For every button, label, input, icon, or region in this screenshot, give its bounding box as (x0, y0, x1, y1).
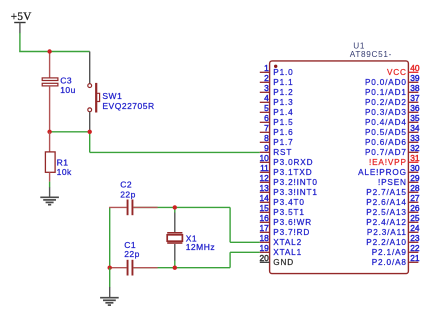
svg-text:P0.3/AD3: P0.3/AD3 (365, 108, 407, 117)
svg-text:37: 37 (410, 93, 420, 103)
svg-text:21: 21 (410, 253, 420, 263)
svg-text:EVQ22705R: EVQ22705R (102, 101, 154, 111)
U1 pin 23 P2.2/A10 (366, 233, 420, 247)
svg-text:XTAL1: XTAL1 (273, 248, 302, 257)
junction node top rail at C3 (47, 49, 51, 53)
wire +5V to top rail (19, 33, 90, 52)
svg-text:VCC: VCC (387, 68, 407, 77)
svg-text:35: 35 (410, 113, 420, 123)
U1 pin 5 P1.4 (260, 103, 294, 117)
U1 pin 34 P0.5/AD5 (365, 123, 420, 137)
U1 pin 10 P3.0RXD (259, 153, 313, 167)
U1 pin 28 P2.7/A15 (366, 183, 420, 197)
svg-text:P3.3!INT1: P3.3!INT1 (273, 188, 318, 197)
svg-text:P1.7: P1.7 (273, 138, 293, 147)
svg-text:P0.5/AD5: P0.5/AD5 (365, 128, 407, 137)
svg-text:P0.4/AD4: P0.4/AD4 (365, 118, 407, 127)
svg-text:P2.3/A11: P2.3/A11 (367, 228, 407, 237)
switch SW1 top lead (89, 52, 91, 84)
X1 value 12MHz (186, 242, 215, 252)
U1 pin 1 P1.0 (260, 63, 294, 77)
U1 pin 21 P2.0/A8 (372, 253, 420, 267)
svg-text:18: 18 (259, 233, 269, 243)
svg-text:8: 8 (264, 133, 269, 143)
svg-text:XTAL2: XTAL2 (273, 238, 302, 247)
svg-text:29: 29 (410, 173, 420, 183)
U1 ref label (353, 41, 365, 50)
svg-text:15: 15 (259, 203, 269, 213)
svg-text:P2.7/A15: P2.7/A15 (366, 188, 407, 197)
svg-text:P3.5T1: P3.5T1 (273, 208, 305, 217)
svg-text:2: 2 (264, 73, 269, 83)
wire R1 to ground (49, 182, 51, 188)
svg-text:20: 20 (259, 253, 269, 263)
U1 pin 16 P3.6!WR (259, 213, 312, 227)
U1 pin 40 VCC (387, 63, 420, 77)
svg-text:P1.6: P1.6 (273, 128, 293, 137)
svg-text:4: 4 (264, 93, 269, 103)
svg-text:P2.4/A12: P2.4/A12 (366, 218, 407, 227)
capacitor C1 (109, 260, 158, 276)
svg-text:13: 13 (259, 183, 269, 193)
resistor R1 (45, 132, 55, 182)
capacitor C2 (109, 200, 133, 216)
svg-text:P1.3: P1.3 (273, 98, 293, 107)
junction node XTAL2 rail at X1 (173, 205, 177, 209)
svg-text:39: 39 (410, 73, 420, 83)
svg-text:5: 5 (264, 103, 269, 113)
svg-text:16: 16 (259, 213, 269, 223)
C2 ref label (120, 180, 132, 190)
svg-text:22: 22 (410, 243, 420, 253)
svg-text:40: 40 (410, 63, 420, 73)
svg-text:P1.5: P1.5 (273, 118, 293, 127)
capacitor C3 (42, 52, 58, 132)
wire bottom rail C3/R1 to SW1 (50, 131, 90, 133)
U1 pin 20 GND (259, 253, 294, 267)
U1 pin 24 P2.3/A11 (367, 223, 420, 237)
crystal X1 (167, 233, 182, 243)
U1 pin 17 P3.7!RD (259, 223, 310, 237)
U1 pin 33 P0.6/AD6 (365, 133, 420, 147)
SW1 value EVQ22705R (102, 101, 154, 111)
svg-text:P0.1/AD1: P0.1/AD1 (365, 88, 407, 97)
wire C2 to XTAL2 (133, 207, 259, 242)
svg-text:P0.2/AD2: P0.2/AD2 (365, 98, 407, 107)
svg-text:10u: 10u (60, 85, 76, 95)
svg-text:ALE!PROG: ALE!PROG (358, 168, 407, 177)
svg-text:R1: R1 (57, 157, 69, 167)
svg-text:P3.7!RD: P3.7!RD (273, 228, 310, 237)
U1 pin 31 !EA!VPP (369, 153, 420, 167)
U1 pin 25 P2.4/A12 (366, 213, 420, 227)
crystal X1 top lead (174, 207, 176, 232)
svg-text:12: 12 (259, 173, 269, 183)
wire SW1 to RST (90, 132, 260, 153)
U1 pin 2 P1.1 (260, 73, 294, 87)
svg-text:26: 26 (410, 203, 420, 213)
switch SW1 (88, 83, 100, 113)
svg-text:14: 14 (259, 193, 269, 203)
switch SW1 bottom lead (89, 112, 91, 132)
svg-text:P3.4T0: P3.4T0 (273, 198, 305, 207)
svg-text:P0.0/AD0: P0.0/AD0 (365, 78, 407, 87)
svg-text:!PSEN: !PSEN (378, 178, 407, 187)
svg-text:P2.2/A10: P2.2/A10 (366, 238, 407, 247)
svg-text:P2.0/A8: P2.0/A8 (372, 258, 407, 267)
op-amp U1 body (AT89C51 MCU) (270, 61, 409, 274)
U1 pin 8 P1.7 (260, 133, 294, 147)
U1 pin 11 P3.1TXD (260, 163, 313, 177)
svg-text:P2.5/A13: P2.5/A13 (366, 208, 407, 217)
svg-text:GND: GND (273, 258, 294, 267)
junction node XTAL1 rail at C1 (108, 266, 112, 270)
svg-text:P3.0RXD: P3.0RXD (273, 158, 313, 167)
svg-text:32: 32 (410, 143, 420, 153)
svg-text:7: 7 (264, 123, 269, 133)
C1 ref label (124, 240, 136, 250)
svg-text:6: 6 (264, 113, 269, 123)
U1 pin 13 P3.3!INT1 (259, 183, 317, 197)
U1 pin 39 P0.0/AD0 (365, 73, 420, 87)
U1 pin 26 P2.5/A13 (366, 203, 420, 217)
svg-text:24: 24 (410, 223, 420, 233)
svg-text:C3: C3 (60, 75, 72, 85)
crystal X1 bottom lead (174, 244, 176, 268)
U1 pin 35 P0.4/AD4 (365, 113, 420, 127)
U1 pin 15 P3.5T1 (259, 203, 304, 217)
svg-text:P0.6/AD6: P0.6/AD6 (365, 138, 407, 147)
U1 pin 14 P3.4T0 (259, 193, 304, 207)
R1 ref label (57, 157, 69, 167)
svg-text:34: 34 (410, 123, 420, 133)
svg-text:P1.4: P1.4 (273, 108, 293, 117)
svg-text:9: 9 (264, 143, 269, 153)
SW1 ref label (102, 91, 122, 101)
svg-text:31: 31 (410, 153, 420, 163)
svg-text:19: 19 (259, 243, 269, 253)
wire left vertical C2 to C1 (109, 207, 111, 267)
svg-text:1: 1 (264, 63, 269, 73)
C2 value 22p (120, 189, 136, 199)
svg-text:P1.2: P1.2 (273, 88, 293, 97)
svg-text:36: 36 (410, 103, 420, 113)
ground under C1 (100, 287, 119, 305)
U1 pin 12 P3.2!INT0 (259, 173, 317, 187)
svg-text:22p: 22p (124, 249, 140, 259)
U1 pin 30 ALE!PROG (358, 163, 420, 177)
U1 pin 32 P0.7/AD7 (365, 143, 420, 157)
svg-text:P3.2!INT0: P3.2!INT0 (273, 178, 318, 187)
C3 value 10u (60, 85, 76, 95)
svg-text:22p: 22p (120, 189, 136, 199)
svg-text:SW1: SW1 (102, 91, 122, 101)
svg-text:10k: 10k (57, 167, 72, 177)
R1 value 10k (57, 167, 72, 177)
U1 pin 27 P2.6/A14 (366, 193, 420, 207)
svg-text:P3.1TXD: P3.1TXD (273, 168, 312, 177)
U1 pin 36 P0.3/AD3 (365, 103, 420, 117)
wire C1 to XTAL1 (133, 252, 259, 267)
X1 ref label (186, 234, 197, 244)
U1 pin 3 P1.2 (260, 83, 294, 97)
svg-text:33: 33 (410, 133, 420, 143)
svg-text:27: 27 (410, 193, 420, 203)
U1 pin 19 XTAL1 (259, 243, 302, 257)
svg-text:11: 11 (260, 163, 269, 173)
svg-text:P3.6!WR: P3.6!WR (273, 218, 312, 227)
svg-text:+5V: +5V (11, 11, 32, 23)
svg-text:3: 3 (264, 83, 269, 93)
U1 pin 4 P1.3 (260, 93, 294, 107)
svg-text:P2.6/A14: P2.6/A14 (366, 198, 407, 207)
C1 value 22p (124, 249, 140, 259)
U1 pin 7 P1.6 (260, 123, 294, 137)
svg-text:10: 10 (259, 153, 269, 163)
U1 pin 22 P2.1/A9 (372, 243, 420, 257)
svg-text:28: 28 (410, 183, 420, 193)
U1 pin 37 P0.2/AD2 (365, 93, 420, 107)
svg-text:AT89C51-: AT89C51- (350, 50, 392, 59)
svg-text:25: 25 (410, 213, 420, 223)
svg-text:P1.1: P1.1 (273, 78, 293, 87)
C3 ref label (60, 75, 72, 85)
U1 pin 38 P0.1/AD1 (365, 83, 420, 97)
svg-text:P0.7/AD7: P0.7/AD7 (365, 148, 407, 157)
svg-text:RST: RST (273, 148, 292, 157)
power +5V bar symbol (14, 23, 25, 34)
svg-text:C2: C2 (120, 180, 132, 190)
svg-text:38: 38 (410, 83, 420, 93)
svg-text:12MHz: 12MHz (186, 242, 215, 252)
power +5V label (11, 11, 32, 23)
U1 pin-1 marker dot (274, 65, 277, 68)
ground under R1 (40, 187, 59, 204)
svg-text:17: 17 (259, 223, 269, 233)
C2 right lead (133, 206, 157, 208)
U1 pin 18 XTAL2 (259, 233, 302, 247)
svg-text:!EA!VPP: !EA!VPP (369, 158, 407, 167)
U1 pin 29 !PSEN (378, 173, 420, 187)
junction node bottom rail at SW1 (88, 130, 92, 134)
svg-text:23: 23 (410, 233, 420, 243)
U1 pin 9 RST (260, 143, 292, 157)
junction node XTAL1 rail at X1 (173, 266, 177, 270)
svg-text:30: 30 (410, 163, 420, 173)
U1 pin 6 P1.5 (260, 113, 294, 127)
svg-text:P2.1/A9: P2.1/A9 (372, 248, 407, 257)
junction node bottom rail at R1 (47, 130, 51, 134)
wire C1 rail to ground (109, 268, 111, 288)
svg-text:P1.0: P1.0 (273, 68, 293, 77)
U1 value AT89C51- (350, 50, 392, 59)
